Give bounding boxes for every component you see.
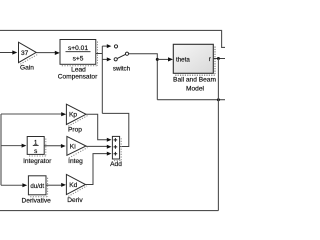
svg-text:switch: switch [113,66,131,73]
wire: to switch lower input [102,58,107,60]
svg-text:Gain: Gain [20,65,34,72]
svg-text:Deriv: Deriv [67,197,83,204]
wire: left distribution vertical [0,114,2,185]
wire: input to Derivative [1,184,23,186]
svg-text:Ki: Ki [70,144,76,151]
gain Ki [67,136,88,165]
wire: Lead Compensator output stub [96,53,103,55]
sum Add [110,136,122,167]
wire: r output to right edge [214,58,226,60]
wire: branch into theta input [157,58,169,60]
svg-text:Add: Add [110,161,122,168]
wire: Kd output to Add input 3 [86,154,108,185]
wire: feedback bottom line [0,210,218,212]
wire: input to Gain [0,52,13,54]
wire: Integrator to Ki [44,145,61,147]
wire: input to Kp [1,113,62,115]
svg-text:Model: Model [186,85,204,92]
svg-text:Integrator: Integrator [23,158,52,165]
wire: Kp output to Add input 1 [86,114,108,140]
wire: vertical riser shared by switch inputs and Add output loop [101,46,103,113]
derivative du/dt [22,176,52,205]
svg-text:s+5: s+5 [73,56,84,63]
svg-text:Kp: Kp [69,111,77,118]
switch (manual switch) [113,45,131,73]
svg-text:37: 37 [21,50,29,57]
svg-text:Prop: Prop [68,127,82,134]
wire: lower horizontal to right edge [157,99,225,101]
transfer-fn Lead Compensator (s+0.01)/(s+5) [58,40,98,81]
svg-text:s: s [34,148,37,155]
gain Kp [66,104,87,133]
wire: feedback vertical right side [217,59,219,211]
svg-text:theta: theta [176,56,190,63]
wire: top reference line [0,30,225,47]
integrator 1/s [23,137,52,166]
wire: to switch upper input [102,45,107,47]
wire: switch output to theta with branch down [129,54,158,100]
wire: Ki output to Add input 2 [86,145,108,147]
wire: Derivative to Kd [46,184,62,186]
node junction at r output [217,57,220,60]
gain Gain (value 37) [19,42,39,71]
svg-text:Compensator: Compensator [58,74,98,81]
svg-text:r: r [209,56,211,63]
svg-text:du/dt: du/dt [30,183,44,190]
subsystem Ball and Beam Model [173,44,216,92]
svg-text:Kd: Kd [69,182,77,189]
svg-text:Integ: Integ [68,158,83,165]
svg-text:Derivative: Derivative [22,197,52,204]
node junction crossing feedback [217,98,220,101]
wire: Gain to Lead Compensator [36,52,55,54]
node junction at theta branch [156,58,159,61]
svg-text:Ball and Beam: Ball and Beam [173,77,216,84]
svg-text:s+0.01: s+0.01 [68,45,88,52]
gain Kd [66,174,87,204]
wire: Add output loop up and left [102,113,129,146]
wire: input to Integrator [1,145,22,147]
svg-text:Lead: Lead [71,66,86,73]
